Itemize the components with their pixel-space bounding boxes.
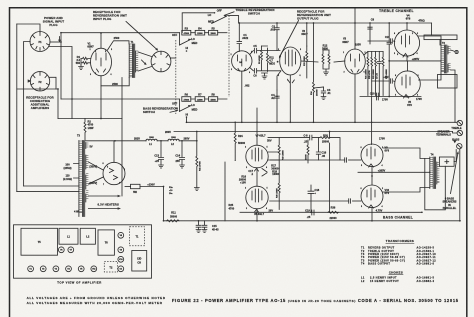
capacitor C14 xyxy=(175,141,184,168)
capacitor C4 xyxy=(271,90,279,122)
top view choke L2 rect xyxy=(80,228,95,244)
top view bottom row tube V1 xyxy=(28,266,34,272)
top view tube O1 circle xyxy=(118,266,124,272)
label: treble reverberation switch xyxy=(236,8,275,16)
resistor R8 xyxy=(209,93,218,102)
wire arm to V2 grid rail xyxy=(228,16,239,23)
tube V7 xyxy=(246,145,268,171)
wire coupling from inverter to C12 xyxy=(270,200,349,202)
tube V4 xyxy=(394,30,419,57)
wire P1 lower output xyxy=(49,47,72,119)
table row T1 xyxy=(361,247,434,250)
wire R13 top to bus xyxy=(306,23,308,46)
wire V5b cathode xyxy=(406,30,409,97)
wire rectifier output xyxy=(125,186,131,188)
wire R24 bottom to ground bus xyxy=(225,161,235,221)
tube V2 xyxy=(232,51,252,71)
resistor R4 xyxy=(195,26,205,35)
wire T1 primary bottom return xyxy=(101,78,129,86)
capacitor C15 xyxy=(196,221,219,233)
bus B 280V y131.5 xyxy=(174,131,453,133)
node junction dot xyxy=(277,61,279,63)
wire T1 secondary to P3 xyxy=(138,52,151,71)
wire V10 cathode to ground bus xyxy=(371,208,373,221)
wire node vertical x66 xyxy=(60,33,62,99)
wire V4 plate stub xyxy=(406,23,408,30)
T4 secondary loop xyxy=(439,157,454,166)
capacitor C6 coupling lower xyxy=(250,68,281,78)
tube V1 xyxy=(91,48,112,76)
speaker terminal treble xyxy=(457,120,462,125)
wire primary feed left xyxy=(17,191,79,193)
wire HV to rectifier plate lower xyxy=(88,177,103,184)
wire V5 plate to bus top xyxy=(354,23,356,49)
wire V3 cathode down xyxy=(289,75,291,122)
arrow signal marker xyxy=(59,37,61,42)
connector P2 xyxy=(30,72,49,91)
heater winding arrows xyxy=(88,195,119,197)
wire chain joints bass xyxy=(191,98,227,100)
tube V5b xyxy=(395,71,421,98)
wire V7 to V8 xyxy=(256,168,258,186)
ground xyxy=(262,76,267,79)
resistor R19 vertical xyxy=(278,138,284,169)
wire from border top to bus xyxy=(354,8,356,23)
wire coupling line C8 feedback xyxy=(268,138,340,160)
node HI bass dot xyxy=(186,116,188,118)
wire T4 secondary return U xyxy=(425,158,446,209)
capacitor C12 xyxy=(349,199,351,203)
top view transformer T5 rect xyxy=(21,228,58,255)
pointer line to P3 xyxy=(126,22,157,50)
wire x389 vertical xyxy=(387,23,391,97)
top view choke L1 rect xyxy=(59,228,78,244)
transformer T3 power xyxy=(77,134,88,217)
label V1 6SN7 xyxy=(87,42,94,49)
wire V1 plate top xyxy=(100,33,102,48)
top view tube V7 circle xyxy=(68,247,74,253)
arrow into P2 xyxy=(28,79,32,82)
label speaker terminals xyxy=(436,129,451,136)
choke L2 xyxy=(168,137,179,146)
bus F +265V xyxy=(389,60,441,62)
wire V3 to V5 grid xyxy=(301,61,345,62)
capacitor C17 label xyxy=(248,169,253,176)
top view bottom row tube V11 xyxy=(91,266,97,272)
transformer T2 xyxy=(441,41,451,73)
wire V5 cathode down xyxy=(354,74,356,123)
switch arm bass xyxy=(180,106,191,111)
wire cathode rail y118.5 xyxy=(58,118,122,120)
resistor R9 vertical xyxy=(258,46,263,70)
wire bass feed vertical x371.6 xyxy=(371,97,373,145)
label: bass reverberation switch xyxy=(143,107,178,115)
label V4 6Y6 xyxy=(406,13,411,20)
top view bottom row tube V3 xyxy=(53,266,59,272)
wire V9 cathode to V10 xyxy=(371,167,373,185)
wire arm pivot up xyxy=(179,33,181,45)
choke L1 xyxy=(146,137,157,146)
wire chain joints treble xyxy=(191,32,227,34)
resistor column rail top xyxy=(368,51,383,53)
top view tube V9 circle xyxy=(118,247,124,253)
transformer T4 xyxy=(430,152,440,188)
speaker terminal common xyxy=(457,130,462,135)
cathode junction marks xyxy=(262,169,267,177)
label C-8 .25 xyxy=(303,133,308,143)
label: receptacle for reverberation unit input plug xyxy=(93,10,127,21)
top view tube V6 circle xyxy=(58,247,64,253)
resistor R26 on feedback line xyxy=(320,133,330,143)
tube pin numbers xyxy=(90,33,420,210)
resistor R11a vertical xyxy=(267,48,276,71)
tube V5 driver xyxy=(345,49,366,74)
resistor 476 loop xyxy=(424,35,457,40)
wire loop to T2 xyxy=(439,40,441,45)
label: power and signal input plug text xyxy=(43,16,65,27)
capacitor C8b bars xyxy=(310,135,312,140)
resistor R30 vertical xyxy=(276,168,281,210)
resistor R2 xyxy=(84,119,94,140)
table row T3b xyxy=(361,256,436,259)
resistor R17 label xyxy=(271,164,279,171)
pointer to output plug node xyxy=(280,21,299,58)
capacitor C13 xyxy=(154,141,163,168)
wire V4 cathode stub xyxy=(406,56,409,71)
wire P2 output xyxy=(49,77,56,89)
switch arm treble lower xyxy=(180,40,191,45)
choke line y140.8 xyxy=(85,140,146,142)
capacitor C5 coupling upper xyxy=(250,44,280,55)
speaker terminal bass xyxy=(457,144,462,149)
wire P1 left pin to inner rail xyxy=(24,42,31,187)
wire V8 cathode xyxy=(256,209,258,221)
wire primary feed inner xyxy=(24,185,79,187)
wire to 476 loop xyxy=(431,23,433,35)
switch arm treble upper xyxy=(212,16,227,23)
tube V8 xyxy=(246,186,268,212)
capacitor C16 grid xyxy=(385,35,392,43)
label V5 6Y6 xyxy=(407,100,412,107)
wire vertical x329.5 xyxy=(329,132,331,213)
bus A y122.3 xyxy=(187,121,457,123)
resistor R1 xyxy=(76,55,91,65)
node HI dot xyxy=(186,50,188,52)
wire P3 to switch rail xyxy=(171,57,176,59)
gang dashed link right xyxy=(228,16,230,98)
choke row L1 xyxy=(361,277,434,280)
top view tube V8 circle xyxy=(118,232,124,238)
top view C/D CH rect xyxy=(132,251,147,272)
label tap 110 xyxy=(63,174,72,181)
table row T2 xyxy=(361,250,434,253)
capacitor C18 xyxy=(308,185,320,212)
gang dashed link left xyxy=(175,40,177,114)
resistor R23 vertical xyxy=(382,52,388,96)
bus G +265V bass xyxy=(358,171,430,173)
wire T2 secondary down to terminal xyxy=(451,70,455,122)
resistor R16 label xyxy=(239,174,247,184)
capacitor C11 xyxy=(345,158,347,162)
pointer speakers to bass terminal xyxy=(451,153,459,194)
bus E treble cathode y96.5 xyxy=(360,96,421,98)
resistor R13 plate vertical xyxy=(304,46,308,78)
label V3 6SN7 xyxy=(342,37,361,47)
capacitor C15b xyxy=(202,221,207,233)
wire treble switch top rail xyxy=(182,13,214,33)
resistor R5 xyxy=(209,26,218,35)
top view bottom row tube V5 xyxy=(78,266,84,272)
top view T1 dashed rect xyxy=(130,227,145,246)
label V10 6Y6 xyxy=(385,188,390,195)
label R1a 10a xyxy=(169,187,174,195)
top view T2 dashed rect xyxy=(104,262,117,272)
resistor R12 network xyxy=(322,44,330,76)
top view bottom row tube V4 xyxy=(66,266,72,272)
capacitor C9 vertical xyxy=(377,52,382,97)
speaker tap circle xyxy=(451,50,459,54)
wire heater bus vertical xyxy=(121,78,123,197)
wire V9 plate to T4 xyxy=(383,148,430,159)
wire V3 grid2 to C4 xyxy=(277,71,281,90)
wire rectifier cathode up to choke line xyxy=(113,141,115,163)
T2 secondary loop xyxy=(438,75,458,89)
label: 4 bass speakers in parallel xyxy=(442,196,456,210)
wire coupling from inverter to C11 xyxy=(271,159,345,161)
resistor R18 label xyxy=(272,169,280,176)
wire grid rail treble lower xyxy=(372,80,395,83)
ground xyxy=(79,65,84,70)
wire R10 to node xyxy=(140,186,164,188)
label V9 6Y6 xyxy=(385,145,390,152)
wire resistor rail xyxy=(262,46,268,76)
resistor R20 vertical xyxy=(368,52,373,96)
bus D y212.3 xyxy=(240,211,422,213)
wire V7 top xyxy=(256,108,258,145)
tube V11 rectifier xyxy=(103,162,125,184)
wire P1 output to node xyxy=(50,41,61,43)
wire left vertical rail xyxy=(16,24,18,192)
resistor R31 vertical xyxy=(304,140,309,163)
wire grid rail treble upper xyxy=(368,40,395,43)
wire ground rail y89 xyxy=(17,89,58,119)
resistor R6 xyxy=(182,93,191,102)
wire bus B to common terminal xyxy=(453,132,458,134)
resistor R3 xyxy=(182,26,191,35)
bus C ground y220.8 xyxy=(164,220,461,222)
capacitor C17 grid lower xyxy=(383,75,392,83)
table row T3c xyxy=(361,259,436,262)
wire choke output xyxy=(179,132,197,141)
bus top y23 xyxy=(239,22,432,24)
connector P3 reverb send xyxy=(151,51,171,72)
label tap 100 xyxy=(64,163,72,170)
resistor R10 box xyxy=(131,184,141,194)
wire bass HI tap down to bus xyxy=(186,117,188,122)
connector P1 xyxy=(30,32,50,52)
capacitor C19 on bus D xyxy=(305,208,314,219)
resistor R7 xyxy=(195,93,205,102)
resistor R15 vertical xyxy=(196,141,202,188)
wire V9 grid entry xyxy=(349,159,362,161)
top view bottom row tube V2 xyxy=(40,266,46,272)
capacitor C3 with ground xyxy=(321,87,331,100)
arrow shield marker xyxy=(142,60,146,64)
node OFF dot xyxy=(214,12,216,14)
capacitor C16 xyxy=(316,138,326,160)
wire HV to rectifier plate upper xyxy=(88,162,103,170)
wire tap stubs xyxy=(74,164,79,179)
tube V3 xyxy=(280,47,301,83)
transformer T1 xyxy=(129,40,138,77)
wire bass terminal down to ground bus xyxy=(459,149,461,221)
resistor R24 vertical xyxy=(234,122,245,160)
wire V2 cathode down xyxy=(241,71,243,122)
top view tube V10 circle xyxy=(118,256,124,262)
pointer to bass switch xyxy=(170,111,177,113)
tube V9 xyxy=(361,144,383,167)
top view outer box xyxy=(14,225,152,278)
bus y32.7 xyxy=(61,32,180,34)
wire C3 tap xyxy=(314,87,324,88)
wire V10 grid entry xyxy=(353,200,362,202)
resistor R36 on bus D xyxy=(328,206,338,221)
wire P1 top feed xyxy=(17,24,40,33)
wire V10 plate to T4 xyxy=(383,188,430,193)
resistor R22 vertical xyxy=(373,52,377,96)
resistor R11 on bus C xyxy=(167,210,180,221)
capacitor C1 xyxy=(237,23,249,52)
bass line y99 xyxy=(61,98,180,100)
wire plate load vertical R14 xyxy=(310,23,319,121)
ground R15 xyxy=(194,188,199,191)
wire V1 plate to T1 xyxy=(108,41,130,50)
wire between chokes xyxy=(157,140,168,142)
capacitor C2 xyxy=(270,23,279,51)
resistor R25 labels xyxy=(229,203,235,211)
pointer to treble switch arm xyxy=(225,12,235,15)
wire V7 plate right xyxy=(268,152,279,160)
resistor R21 vertical xyxy=(364,52,369,96)
capacitor C8 coupling xyxy=(368,18,375,45)
top view transformer T6 rect xyxy=(98,230,114,255)
label V3 6SC7 xyxy=(301,29,308,36)
wire V4 plate to T2 xyxy=(419,36,442,45)
tube V10 xyxy=(361,185,383,208)
choke row L2 xyxy=(361,280,434,283)
wire node down to ground bus xyxy=(163,187,165,221)
capacitor C10 on cathode bus xyxy=(370,92,388,102)
table row T3a xyxy=(361,253,436,256)
label: receptacle for reverberation unit output plug xyxy=(297,9,331,20)
table row T4 xyxy=(361,263,434,266)
label: receptacle for connecting additional amplifiers xyxy=(26,96,54,111)
arrow under BASS xyxy=(453,140,456,143)
wire V5 plate feed to column xyxy=(364,52,368,56)
wire bass arm pivot xyxy=(179,99,181,111)
wire V5b plate to T2 xyxy=(419,73,442,80)
wire V1 cathode down xyxy=(100,76,102,119)
wire T4 loop to bass terminal xyxy=(454,150,456,162)
